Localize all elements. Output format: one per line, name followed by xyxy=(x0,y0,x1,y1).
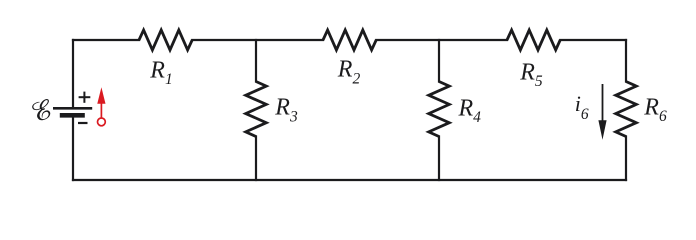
wire R4 branch upper xyxy=(438,40,440,82)
resistor R5 xyxy=(507,30,560,50)
resistor R6 xyxy=(616,82,637,137)
svg-text:R3: R3 xyxy=(274,95,298,126)
wire right below R6 xyxy=(625,137,627,181)
wire bottom xyxy=(73,179,626,181)
wire left below battery xyxy=(72,117,74,180)
resistor R4 xyxy=(429,82,450,137)
resistor R1 xyxy=(139,30,192,50)
wire right above R6 xyxy=(625,40,627,82)
battery current arrow (red) xyxy=(97,87,105,126)
battery negative plate xyxy=(60,113,85,118)
EMF script-E label xyxy=(32,99,50,120)
battery plus label xyxy=(79,92,91,103)
svg-text:R2: R2 xyxy=(337,57,361,88)
wire top-right segment xyxy=(560,39,626,41)
wire top-left segment xyxy=(73,39,139,41)
wire top between R2 and R5 xyxy=(376,39,507,41)
svg-text:i6: i6 xyxy=(575,91,589,123)
battery positive plate xyxy=(53,107,92,110)
resistor R3 xyxy=(246,82,267,137)
battery minus label xyxy=(78,122,88,124)
wire R3 branch lower xyxy=(255,137,257,181)
wire top between R1 and R2 xyxy=(192,39,323,41)
wire left above battery xyxy=(72,40,74,107)
wire R4 branch lower xyxy=(438,137,440,181)
svg-text:R5: R5 xyxy=(519,59,543,90)
resistor R2 xyxy=(323,30,376,50)
svg-text:R1: R1 xyxy=(149,57,172,88)
current arrow i6 xyxy=(598,84,606,140)
svg-text:R6: R6 xyxy=(643,94,667,125)
svg-text:R4: R4 xyxy=(458,95,482,126)
wire R3 branch upper xyxy=(255,40,257,82)
